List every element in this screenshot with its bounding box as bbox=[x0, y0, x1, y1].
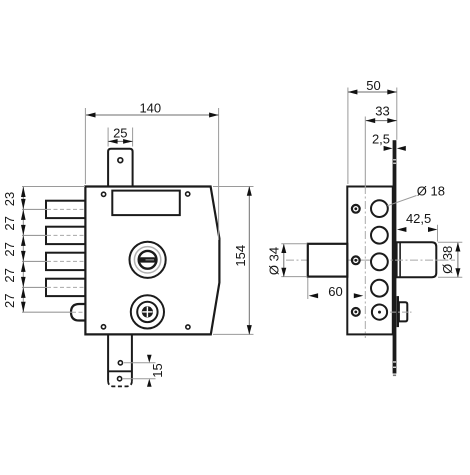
dimension 42,5 extension line bbox=[437, 225, 439, 242]
bolt 2 bbox=[46, 227, 85, 244]
svg-text:15: 15 bbox=[150, 363, 165, 377]
bottom tab hole 2 bbox=[118, 377, 122, 381]
dimension 60 arrows bbox=[309, 293, 319, 298]
dimension 154 line bbox=[248, 187, 250, 334]
chain arrows bbox=[21, 187, 26, 198]
key cylinder rotor bbox=[139, 251, 157, 269]
deadbolt centerline bbox=[390, 311, 412, 313]
dimension 2,5 arrows bbox=[384, 146, 393, 151]
dimension 60 extension line bbox=[307, 278, 309, 300]
lower cylinder outer ring bbox=[131, 295, 164, 328]
dimension 33 line bbox=[366, 120, 397, 122]
faceplate bbox=[393, 140, 397, 373]
top fixing tab bbox=[108, 149, 133, 187]
label plate bbox=[112, 191, 180, 216]
bolt 4 bbox=[46, 279, 85, 296]
screw boss 1 bbox=[352, 205, 360, 213]
bottom fixing tab bbox=[107, 334, 109, 381]
inside cylinder (O38) bbox=[397, 242, 437, 277]
dimension 42,5 arrows bbox=[397, 227, 407, 232]
lower cylinder middle ring bbox=[137, 302, 157, 322]
screw boss 2 bbox=[352, 256, 360, 264]
latch centerline bbox=[22, 311, 72, 313]
lower cylinder cross rotor bbox=[142, 306, 153, 317]
svg-text:2,5: 2,5 bbox=[372, 132, 390, 147]
top tab hole bbox=[118, 158, 123, 163]
svg-text:Ø 18: Ø 18 bbox=[417, 183, 445, 198]
dimension O34 extension lines bbox=[281, 243, 307, 245]
keyway slot bbox=[139, 257, 156, 262]
screw boss 3 bbox=[352, 308, 360, 316]
bottom tab hole 1 bbox=[118, 361, 122, 365]
bottom tab break line bbox=[108, 370, 132, 372]
dimension 15 leader lines bbox=[124, 362, 156, 364]
svg-text:154: 154 bbox=[233, 245, 248, 267]
faceplate lower hole marks bbox=[393, 361, 396, 362]
dimension 25 extension lines bbox=[107, 128, 109, 147]
side body vertical centerline bbox=[364, 117, 366, 187]
svg-text:25: 25 bbox=[113, 125, 127, 140]
bolt 1 (top) bbox=[46, 201, 85, 218]
screw hole bottom-left bbox=[101, 325, 105, 329]
svg-text:42,5: 42,5 bbox=[406, 211, 431, 226]
faceplate hole marks bbox=[393, 159, 396, 160]
cylinder axis centerline bbox=[286, 259, 455, 261]
bolt 1 centerline bbox=[22, 208, 47, 210]
hole 1 (O18) bbox=[371, 200, 388, 217]
deadbolt side view bbox=[399, 302, 407, 321]
outside cylinder (O34) bbox=[308, 244, 348, 277]
screw hole bottom-right bbox=[186, 325, 190, 329]
dimension O38 line bbox=[457, 243, 459, 277]
dimension 140 line bbox=[86, 114, 219, 116]
latch bolt (rounded) bbox=[71, 304, 85, 321]
svg-text:23: 23 bbox=[2, 192, 17, 206]
svg-text:27: 27 bbox=[2, 242, 17, 256]
dimension 154 extension lines bbox=[213, 186, 254, 188]
bolt 2 centerline bbox=[22, 234, 47, 236]
cylinder axis centerline overlay bbox=[350, 259, 448, 261]
svg-text:60: 60 bbox=[328, 284, 342, 299]
svg-text:27: 27 bbox=[2, 268, 17, 282]
lock case body outline bbox=[85, 187, 219, 335]
dimension 50 extension lines bbox=[347, 88, 349, 185]
screw hole top-left bbox=[102, 192, 106, 196]
bolt 4 centerline bbox=[22, 286, 47, 288]
left chain dimension line bbox=[22, 187, 24, 313]
hole 2 bbox=[371, 227, 388, 244]
svg-text:Ø 38: Ø 38 bbox=[440, 246, 455, 274]
bolt 3 bbox=[46, 253, 85, 270]
hole 5 with pin bbox=[372, 305, 387, 320]
dimension 50 line bbox=[348, 91, 397, 93]
key cylinder outer ring bbox=[130, 242, 166, 278]
svg-text:27: 27 bbox=[2, 216, 17, 230]
svg-text:Ø 34: Ø 34 bbox=[267, 247, 282, 275]
svg-text:33: 33 bbox=[375, 103, 389, 118]
key cylinder middle ring bbox=[134, 247, 160, 273]
dimension 140 extension line left bbox=[84, 108, 86, 184]
hole 3 bbox=[371, 253, 388, 270]
svg-text:27: 27 bbox=[2, 294, 17, 308]
screw hole top-right bbox=[186, 192, 190, 196]
dimension 15 arrows bbox=[147, 355, 152, 363]
faceplate pad at deadbolt bbox=[397, 296, 399, 327]
svg-text:140: 140 bbox=[139, 101, 161, 116]
side body bbox=[347, 187, 393, 335]
dimension 140 extension line right bbox=[218, 108, 220, 240]
chain extension at case top bbox=[22, 186, 85, 188]
bolt 3 centerline bbox=[22, 260, 47, 262]
dimension O34 line bbox=[283, 244, 285, 276]
hole 4 bbox=[371, 280, 388, 297]
svg-text:50: 50 bbox=[366, 78, 380, 93]
cylinder collar line bbox=[399, 242, 401, 277]
O18 leader line bbox=[387, 196, 416, 206]
dimension 25 line bbox=[108, 140, 133, 142]
dimension O38 extension lines bbox=[438, 241, 462, 243]
